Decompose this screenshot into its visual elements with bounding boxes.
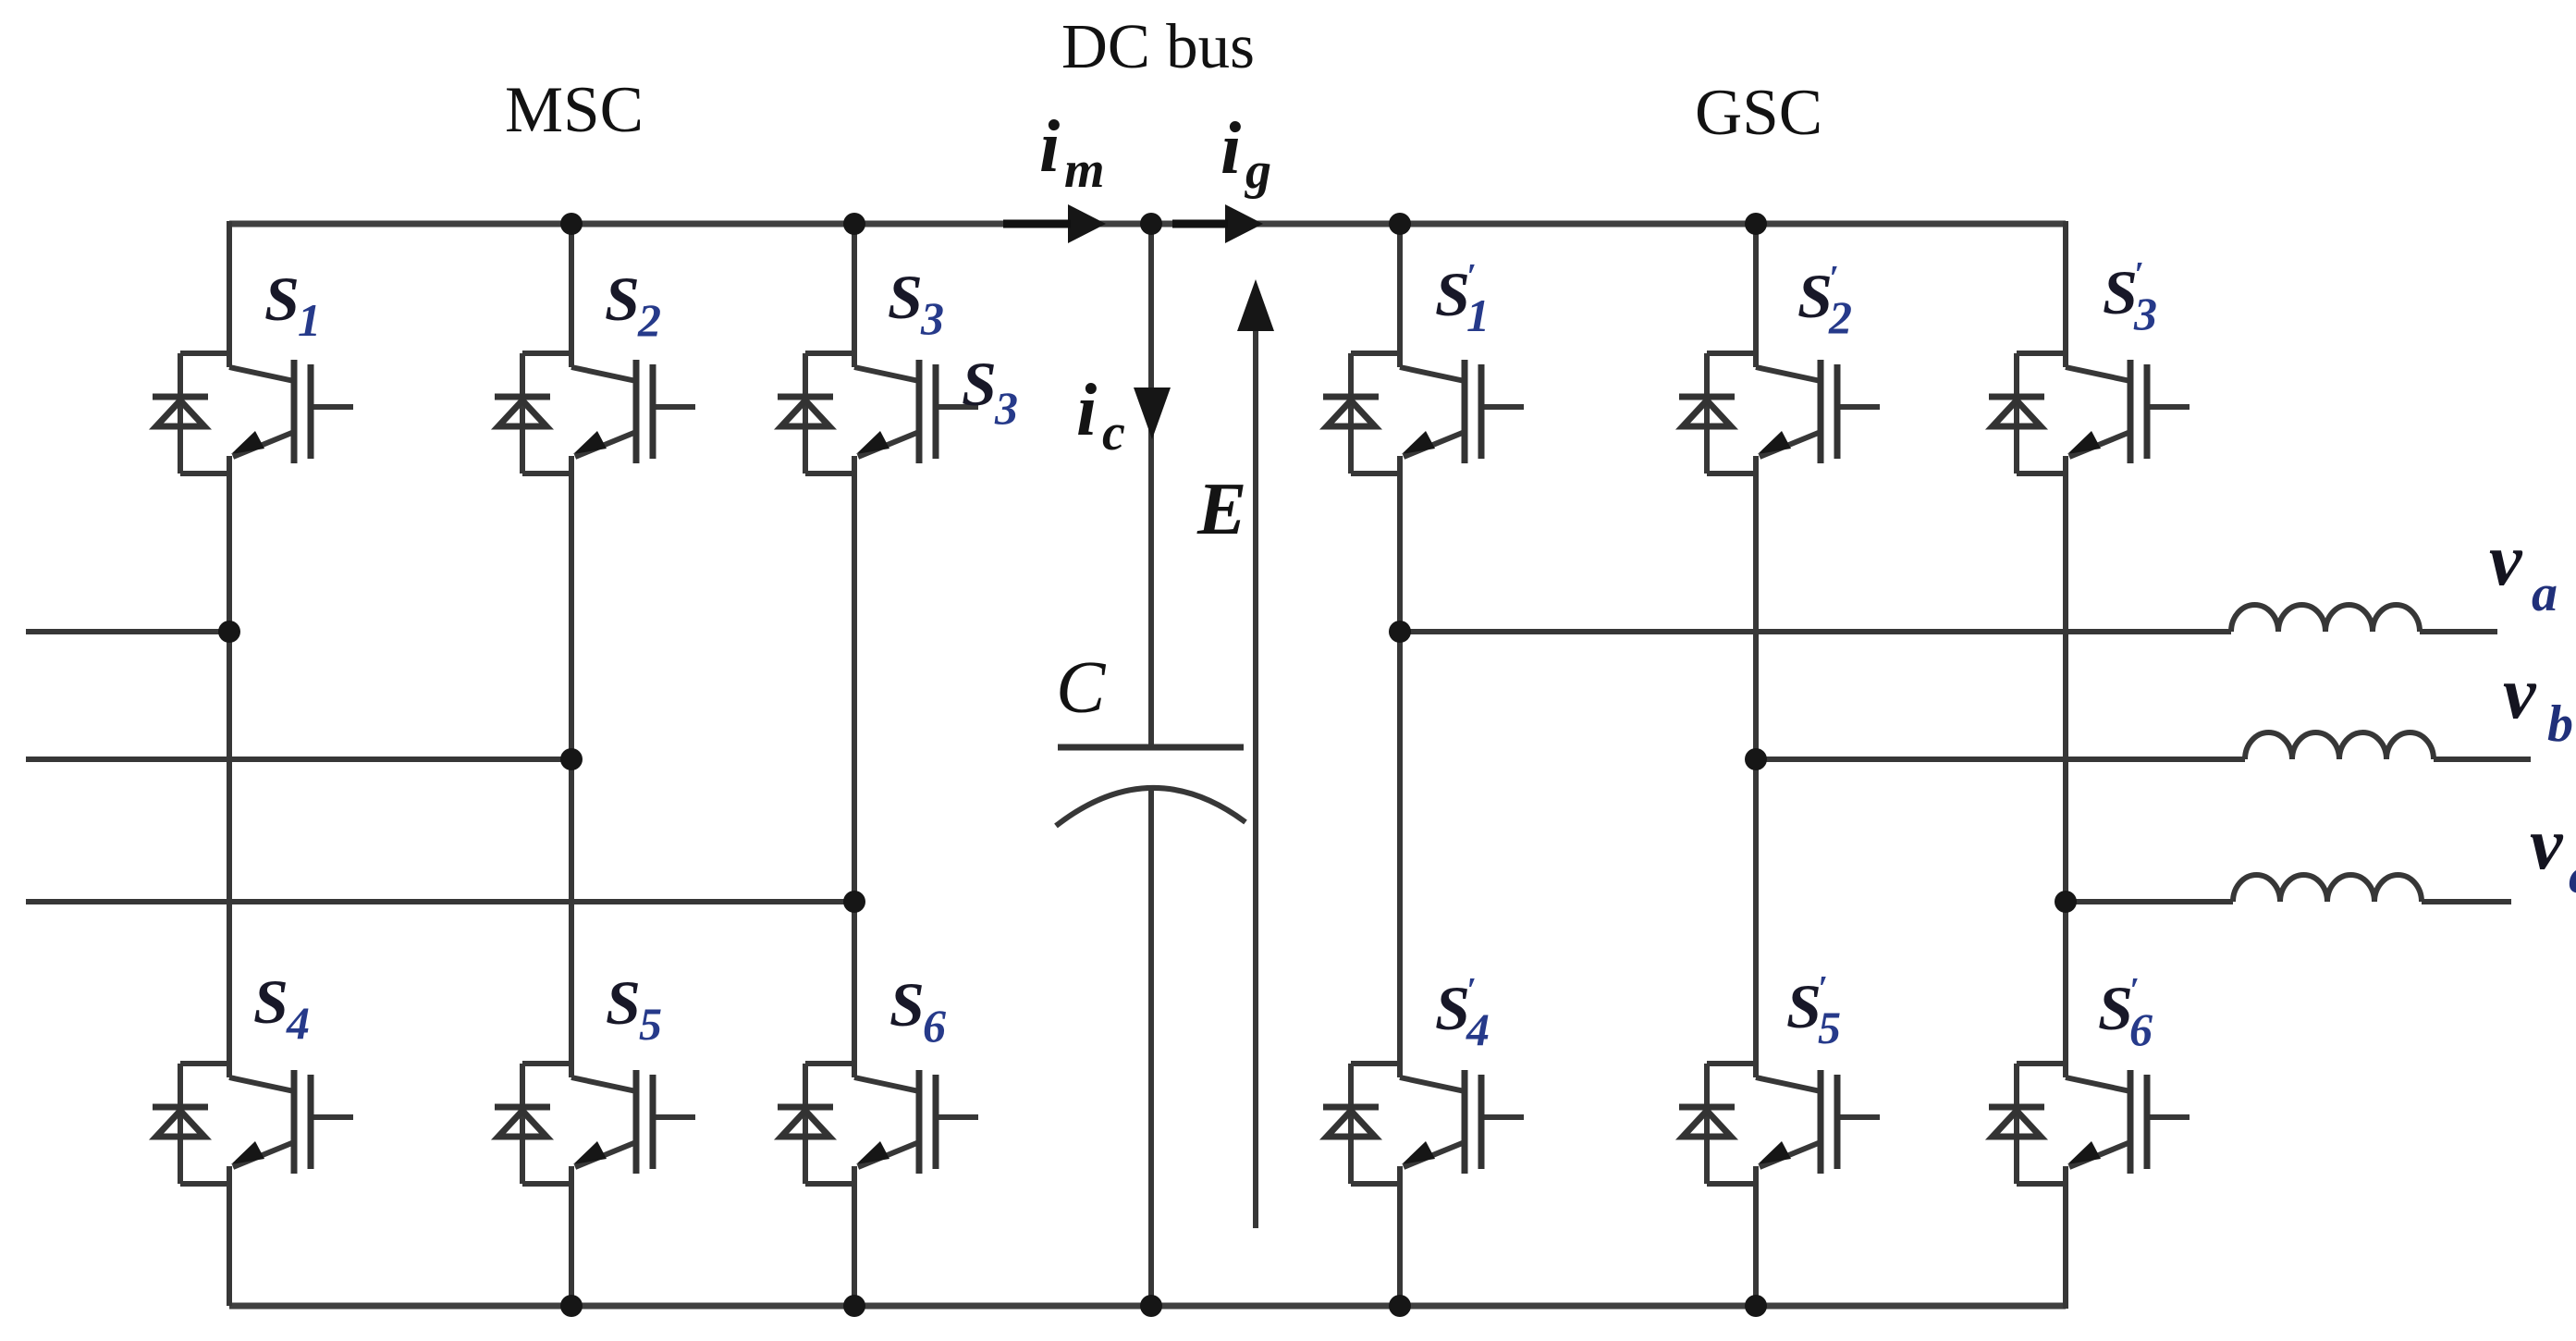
wire: GSC leg 2 vertical (S2'/S5' phase leg) (1753, 224, 1759, 1306)
junction node: top rail / leg 3 (843, 213, 865, 235)
wire: positive DC bus (top rail) (229, 221, 2066, 228)
transistor S2 (IGBT with antiparallel diode) (495, 353, 695, 474)
transistor S3' (IGBT with antiparallel diode) (1989, 353, 2190, 474)
svg-text:C: C (1056, 647, 1107, 729)
wire: grid phase a tail (2420, 629, 2497, 634)
wire: grid phase b tail (2434, 757, 2531, 762)
svg-text:v: v (2530, 804, 2564, 885)
wire: DC-link capacitor top lead (1148, 224, 1154, 747)
wire: grid phase c tail (2422, 899, 2511, 904)
junction node: bottom rail / leg 2 (560, 1295, 583, 1317)
svg-text:S: S (264, 264, 300, 334)
wire: GSC leg 1 vertical (S1'/S4' phase leg) (1397, 224, 1403, 1306)
junction node: bottom rail / GSC leg 2 (1745, 1295, 1767, 1317)
transistor S1 (IGBT with antiparallel diode) (153, 353, 353, 474)
svg-text:S: S (962, 349, 997, 419)
arrow: current i_g on DC bus (1225, 204, 1263, 243)
inductor Lc (phase c) (2233, 875, 2422, 902)
arrow: capacitor current i_c (downward) (1134, 388, 1171, 439)
svg-text:2: 2 (1828, 291, 1852, 343)
svg-text:g: g (1244, 142, 1271, 200)
wire: GSC leg 3 vertical (S3'/S6' phase leg) (2063, 221, 2068, 1309)
transistor S4 (IGBT with antiparallel diode) (153, 1064, 353, 1184)
transistor S3 (IGBT with antiparallel diode) (778, 353, 978, 474)
transistor S5 (IGBT with antiparallel diode) (495, 1064, 695, 1184)
wire: DC-link capacitor bottom lead (1148, 789, 1154, 1306)
wire: MSC leg 2 vertical (S2/S5 phase leg) (569, 224, 574, 1306)
transistor S5' (IGBT with antiparallel diode) (1679, 1064, 1880, 1184)
svg-text:i: i (1076, 370, 1097, 451)
svg-text:S: S (888, 262, 923, 332)
wire: grid phase b line to inductor (1756, 757, 2245, 762)
svg-text:S: S (606, 967, 641, 1038)
wire: grid phase c line to inductor (2066, 899, 2233, 904)
wire: negative DC bus (bottom rail) (229, 1303, 2066, 1310)
svg-text:3: 3 (994, 382, 1018, 434)
junction node: top rail / GSC leg 2 (1745, 213, 1767, 235)
junction node: phase a / MSC leg 1 (218, 621, 240, 643)
svg-text:3: 3 (2133, 288, 2157, 339)
svg-text:S: S (889, 969, 925, 1040)
junction node: top rail / capacitor (1140, 213, 1162, 235)
svg-text:v: v (2489, 520, 2523, 601)
inductor La (phase a) (2231, 605, 2420, 632)
svg-text:5: 5 (1818, 1002, 1841, 1053)
svg-text:i: i (1039, 106, 1060, 188)
svg-text:v: v (2503, 653, 2537, 734)
svg-text:4: 4 (286, 997, 310, 1049)
junction node: top rail / leg 2 (560, 213, 583, 235)
junction node: phase c / GSC leg 3 (2055, 891, 2077, 913)
svg-text:2: 2 (637, 294, 661, 346)
svg-text:1: 1 (298, 294, 321, 346)
svg-text:S: S (605, 264, 640, 334)
capacitor C bottom curved plate (1056, 788, 1245, 826)
svg-text:c: c (1102, 404, 1125, 461)
svg-text:c: c (2569, 847, 2576, 904)
svg-text:3: 3 (920, 292, 944, 344)
arrow: DC voltage E (upward) (1253, 305, 1258, 1228)
svg-text:i: i (1221, 108, 1241, 190)
svg-text:MSC: MSC (505, 74, 644, 146)
capacitor C top plate (1058, 744, 1244, 751)
svg-text:1: 1 (1466, 289, 1490, 341)
transistor S6' (IGBT with antiparallel diode) (1989, 1064, 2190, 1184)
arrow: current i_m on DC bus (1068, 204, 1106, 243)
junction node: phase b / GSC leg 2 (1745, 748, 1767, 770)
junction node: bottom rail / leg 3 (843, 1295, 865, 1317)
wire: MSC leg 3 vertical (S3/S6 phase leg) (852, 224, 857, 1306)
svg-text:6: 6 (923, 1000, 946, 1052)
junction node: bottom rail / GSC leg 1 (1389, 1295, 1411, 1317)
svg-text:S: S (1797, 261, 1833, 331)
svg-text:a: a (2532, 565, 2558, 622)
wire: MSC leg 1 vertical (S1/S4 phase leg) (227, 221, 232, 1306)
wire: machine phase b line (left) (26, 757, 571, 762)
svg-text:S: S (1435, 259, 1470, 329)
svg-text:E: E (1196, 469, 1246, 550)
svg-text:5: 5 (639, 998, 662, 1050)
junction node: phase c / MSC leg 3 (843, 891, 865, 913)
transistor S4' (IGBT with antiparallel diode) (1323, 1064, 1524, 1184)
svg-text:S: S (1786, 971, 1822, 1041)
junction node: phase a / GSC leg 1 (1389, 621, 1411, 643)
svg-text:S: S (1435, 973, 1470, 1043)
svg-text:S: S (2098, 973, 2133, 1043)
svg-text:4: 4 (1466, 1003, 1490, 1055)
svg-text:GSC: GSC (1695, 77, 1822, 149)
transistor S2' (IGBT with antiparallel diode) (1679, 353, 1880, 474)
inductor Lb (phase b) (2245, 732, 2434, 759)
wire: grid phase a line to inductor (1400, 629, 2231, 634)
wire: machine phase a line (left) (26, 629, 229, 634)
svg-text:m: m (1064, 141, 1105, 199)
svg-text:S: S (2103, 257, 2138, 327)
junction node: bottom rail / capacitor (1140, 1295, 1162, 1317)
wire: machine phase c line (left) (26, 899, 854, 904)
transistor S6 (IGBT with antiparallel diode) (778, 1064, 978, 1184)
svg-text:S: S (253, 966, 288, 1037)
junction node: phase b / MSC leg 2 (560, 748, 583, 770)
svg-text:6: 6 (2129, 1003, 2153, 1055)
junction node: top rail / GSC leg 1 (1389, 213, 1411, 235)
transistor S1' (IGBT with antiparallel diode) (1323, 353, 1524, 474)
svg-text:DC bus: DC bus (1061, 11, 1255, 81)
svg-text:b: b (2547, 695, 2573, 753)
